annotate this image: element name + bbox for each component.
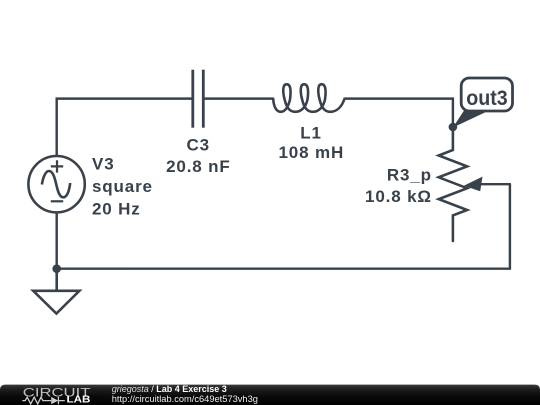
svg-text:V3: V3 bbox=[92, 155, 115, 174]
CircuitLab logo schematic glyph bbox=[22, 397, 65, 404]
wire source top to C3 bbox=[57, 99, 193, 155]
svg-text:griegosta / Lab 4 Exercise 3: griegosta / Lab 4 Exercise 3 bbox=[112, 384, 227, 394]
junction dot out3 bbox=[449, 123, 458, 132]
wire C3 to L1 bbox=[203, 97, 273, 99]
inductor L1 bbox=[273, 84, 344, 112]
wire L1 to out3 corner bbox=[345, 99, 453, 124]
svg-text:R3_p: R3_p bbox=[387, 166, 432, 185]
footer bar bbox=[0, 385, 540, 405]
svg-text:http://circuitlab.com/c649et57: http://circuitlab.com/c649et573vh3g bbox=[112, 394, 258, 404]
svg-text:square: square bbox=[92, 177, 153, 196]
wire bottom rail bbox=[57, 267, 510, 269]
ground bbox=[33, 269, 79, 314]
CircuitLab logo diode bbox=[51, 397, 58, 404]
svg-text:10.8 kΩ: 10.8 kΩ bbox=[365, 187, 432, 206]
potentiometer wiper arrow bbox=[464, 177, 483, 192]
svg-text:108 mH: 108 mH bbox=[279, 143, 345, 162]
svg-text:20 Hz: 20 Hz bbox=[92, 200, 141, 219]
wire wiper to right rail bbox=[480, 183, 510, 185]
svg-text:out3: out3 bbox=[466, 86, 508, 110]
wire right rail down bbox=[509, 184, 511, 269]
svg-text:LAB: LAB bbox=[67, 395, 91, 405]
capacitor C3 bbox=[193, 70, 204, 128]
potentiometer R3_p bbox=[439, 127, 467, 241]
junction dot ground bbox=[52, 264, 61, 273]
svg-text:C3: C3 bbox=[186, 136, 209, 155]
wire source bottom bbox=[55, 213, 57, 269]
svg-text:20.8 nF: 20.8 nF bbox=[166, 157, 231, 176]
node out3 flag bbox=[453, 78, 513, 128]
voltage source V3 bbox=[28, 156, 84, 212]
svg-text:L1: L1 bbox=[300, 123, 322, 142]
